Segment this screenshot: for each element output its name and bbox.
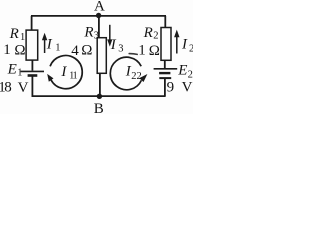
svg-text:A: A (94, 0, 105, 15)
battery E1 long plate (21, 70, 44, 72)
wire E1 to bottom rail (31, 76, 33, 96)
svg-text:22: 22 (131, 71, 142, 82)
svg-text:I: I (110, 37, 117, 53)
svg-text:V: V (18, 80, 29, 96)
current arrow I1 (upward) (42, 33, 47, 53)
svg-text:I: I (46, 36, 53, 52)
svg-text:1: 1 (55, 43, 60, 54)
svg-text:E: E (7, 62, 17, 78)
svg-text:2: 2 (189, 44, 193, 55)
svg-text:Ω: Ω (149, 43, 160, 59)
svg-text:4: 4 (71, 43, 79, 59)
battery E2 long plate (154, 68, 178, 70)
svg-text:2: 2 (153, 31, 158, 42)
svg-text:E: E (177, 62, 187, 78)
stray ink mark above I22 loop (129, 53, 137, 56)
svg-text:1: 1 (17, 68, 22, 79)
svg-text:B: B (94, 101, 104, 114)
wire right vertical top corner to R2 (164, 16, 166, 28)
wire E2 to bottom rail (164, 79, 166, 97)
svg-text:1: 1 (20, 32, 25, 43)
current arrow I3 (downward) (107, 25, 112, 47)
resistor R3 body (97, 38, 106, 74)
current arrow I2 (upward) (174, 30, 179, 54)
mesh current loop arrow I22 (counter-clockwise) (110, 57, 147, 90)
svg-text:R: R (143, 25, 153, 41)
svg-text:3: 3 (118, 44, 123, 55)
svg-text:11: 11 (69, 71, 77, 82)
mesh current loop arrow I11 (clockwise) (47, 56, 82, 89)
wire bottom horizontal rail through node B (32, 95, 166, 97)
node A junction dot (96, 13, 101, 18)
resistor R2 body (161, 28, 171, 61)
svg-text:9: 9 (167, 79, 175, 95)
svg-text:1: 1 (138, 42, 146, 58)
node B junction dot (97, 94, 102, 99)
wire R1 to E1 (31, 60, 33, 71)
svg-text:1: 1 (3, 42, 11, 58)
wire top horizontal rail through node A (31, 15, 166, 17)
svg-text:Ω: Ω (81, 42, 92, 58)
svg-text:3: 3 (94, 30, 99, 41)
svg-text:18: 18 (0, 79, 11, 95)
svg-text:I: I (181, 37, 188, 53)
svg-text:R: R (9, 26, 19, 42)
battery E1 short thick plate (28, 74, 38, 77)
svg-text:V: V (182, 80, 193, 96)
wire R3 down to node B (99, 73, 101, 96)
wire left vertical top corner to R1 (31, 16, 33, 31)
svg-text:R: R (83, 25, 93, 41)
resistor R1 body (26, 30, 38, 60)
battery E2 lower bar plate (159, 77, 171, 79)
svg-text:I: I (60, 64, 67, 80)
battery E2 short thick plate (159, 72, 170, 74)
wire node A down to R3 (98, 16, 100, 38)
svg-text:Ω: Ω (14, 43, 25, 59)
wire R2 to E2 (164, 61, 166, 69)
